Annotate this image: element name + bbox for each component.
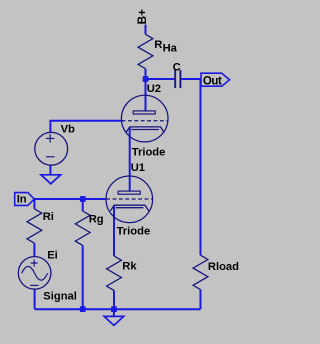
svg-text:In: In: [17, 193, 27, 205]
svg-text:Rload: Rload: [208, 261, 239, 273]
svg-text:R: R: [154, 39, 162, 51]
svg-text:Triode: Triode: [132, 147, 166, 159]
svg-text:Out: Out: [203, 75, 222, 87]
svg-text:Ha: Ha: [163, 42, 178, 54]
svg-text:U2: U2: [147, 83, 161, 95]
svg-text:Vb: Vb: [61, 123, 75, 135]
svg-text:B+: B+: [135, 9, 149, 25]
svg-text:Ri: Ri: [43, 211, 54, 223]
svg-text:Ei: Ei: [47, 250, 58, 262]
svg-text:Rk: Rk: [122, 260, 137, 272]
svg-text:U1: U1: [131, 162, 145, 174]
svg-text:C: C: [173, 61, 181, 73]
svg-text:Signal: Signal: [43, 291, 77, 303]
svg-text:Triode: Triode: [117, 226, 151, 238]
svg-text:Rg: Rg: [89, 213, 104, 225]
